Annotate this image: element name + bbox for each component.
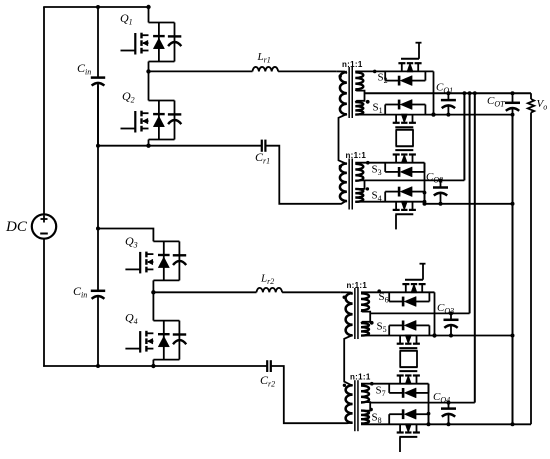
wire left rail (DC positive lead up): [43, 7, 45, 215]
wire load return: [530, 113, 532, 425]
label S4: [372, 190, 382, 204]
transistor S6 (SR MOSFET): [402, 280, 425, 293]
node T4 primary dot: [343, 384, 346, 387]
transistor S8 (SR MOSFET): [397, 424, 420, 437]
label DC: [5, 219, 28, 235]
node Q1-Q2 midpoint: [146, 69, 150, 73]
node Q1 drain: [146, 5, 150, 9]
transistor Q3 (MOSFET): [125, 252, 153, 274]
capacitor Cin (lower): [91, 291, 105, 366]
label Co1: [436, 82, 453, 96]
inductor Lr1: [253, 67, 279, 71]
wire bottom input rail: [43, 365, 267, 367]
wire S6 row: [361, 291, 435, 293]
node Co2 bottom: [439, 202, 443, 206]
node S4 winding dot: [366, 187, 369, 190]
capacitor Co2: [433, 180, 448, 203]
wire Q2 snubber box: [149, 101, 175, 140]
wire Q4 source vertical: [152, 360, 154, 366]
label Lr2: [260, 273, 274, 287]
secondary winding lower T2: [355, 189, 363, 202]
inductor Lr2: [257, 288, 283, 292]
label transformer ratio n:1:1 T1: [342, 60, 363, 69]
node center tap T1: [366, 100, 370, 104]
parallel capacitor of Q1: [168, 36, 181, 46]
node S7 winding dot: [370, 382, 374, 386]
transistor S4 (SR MOSFET): [393, 201, 416, 214]
capacitor Cin (upper): [91, 78, 105, 146]
gate lead S2: [416, 43, 422, 59]
node T2 primary dot: [339, 165, 342, 168]
wire mid rail to Cr1: [98, 145, 261, 147]
transformer core T4: [355, 380, 358, 431]
transistor S5 (SR MOSFET): [397, 335, 420, 348]
wire Q1 drain vertical: [148, 7, 150, 23]
label Q4: [125, 311, 138, 327]
wire Co2 top rail: [365, 179, 465, 181]
transformer T3 primary top lead: [340, 292, 352, 294]
label Cr2: [260, 373, 275, 389]
wire Q3 snubber box: [153, 241, 179, 280]
transistor S1 (SR MOSFET): [393, 114, 416, 127]
center tap connection T1: [355, 90, 364, 102]
label transformer ratio n:1:1 T4: [350, 373, 371, 382]
gate link box S1-S3: [396, 130, 414, 146]
node S2 joins S1 line: [431, 112, 435, 116]
svg-text:n:1:1: n:1:1: [350, 373, 371, 382]
transformer core T1: [349, 67, 352, 118]
transistor Q2 (MOSFET): [121, 111, 149, 133]
capacitor Co1: [441, 93, 456, 114]
wire Cin column middle: [97, 86, 99, 291]
primary winding T3: [346, 293, 353, 335]
node Co2 top: [439, 178, 443, 182]
DC source V1: [32, 214, 56, 238]
body diode of Q3: [158, 241, 170, 280]
capacitor CoT: [505, 93, 520, 114]
center tap connection T4: [361, 402, 370, 411]
node minus bus S1 line: [511, 113, 515, 117]
wire midpoint to Lr1: [149, 70, 253, 72]
wire Q4 drain vertical: [152, 292, 154, 320]
wire Q2 drain vertical: [148, 71, 150, 100]
label Lr1: [257, 51, 271, 65]
secondary winding lower T3: [361, 323, 369, 336]
label S5: [377, 321, 387, 335]
label Co3: [437, 302, 454, 316]
wire T3-T4 primary series link: [344, 335, 352, 386]
label Cr1: [255, 150, 270, 166]
diode of S5: [389, 320, 429, 335]
transformer T1 primary top lead: [336, 71, 347, 73]
node S2 winding dot: [373, 70, 377, 74]
node S6 joins S5 line: [432, 333, 436, 337]
secondary winding upper T2: [355, 164, 363, 181]
label S2: [378, 72, 388, 86]
capacitor Cr1: [262, 140, 266, 152]
node minus bus S5 line: [511, 334, 515, 338]
transformer core T3: [355, 288, 358, 339]
body diode of Q4: [158, 321, 170, 360]
diode of S6: [389, 292, 429, 306]
wire T4 primary bottom lead: [341, 422, 353, 425]
wire midpoint to Lr2: [153, 291, 256, 293]
label Q2: [122, 89, 135, 105]
wire Co4 top rail: [370, 402, 475, 404]
transistor S3 (SR MOSFET): [393, 150, 416, 163]
label S1: [373, 102, 383, 116]
wire Cr2 to transformer T4: [271, 366, 341, 423]
gate lead S6: [420, 264, 426, 280]
wire top rail to load: [530, 93, 532, 99]
node S8 winding dot: [370, 408, 373, 411]
wire S8 row / bottom output rail: [361, 423, 531, 425]
wire top output rail: [365, 92, 532, 94]
gate lead S8: [399, 437, 401, 452]
center tap connection T3: [361, 311, 370, 323]
wire left rail (DC negative lead down): [43, 239, 45, 367]
body diode of Q2: [153, 101, 165, 140]
wire Co3 top rail: [370, 312, 469, 314]
svg-text:n:1:1: n:1:1: [347, 281, 368, 290]
wire Q4 snubber box: [153, 321, 179, 360]
node minus bus S3S4 line: [511, 202, 515, 206]
label S3: [372, 164, 382, 178]
wire S3-S4 output vertical: [424, 163, 426, 204]
wire S1 row: [355, 114, 513, 116]
node S8 loop joins vertical: [427, 412, 431, 416]
diode of S3: [385, 163, 424, 177]
node Q3-Q4 midpoint: [151, 290, 155, 294]
wire S5 row: [361, 335, 513, 337]
wire Cr1 to transformer T2: [265, 146, 337, 204]
node Co4 bottom: [447, 422, 451, 426]
wire S2 output turn-down: [433, 71, 435, 114]
node Co3 bottom: [449, 334, 453, 338]
node S4 wire joins vertical: [423, 200, 427, 204]
label Co2: [426, 171, 443, 185]
wire Lr1 to transformer T1: [278, 70, 336, 72]
wire bus top-rail to Co2 rail: [463, 93, 465, 180]
diode of S7: [389, 384, 428, 398]
wire T1-T2 primary series link: [339, 114, 347, 164]
label Cin lower: [73, 284, 87, 300]
wire S6 output turn-down: [434, 292, 436, 335]
diode of S4: [385, 187, 424, 202]
transformer core T2: [349, 159, 352, 210]
wire S2 row: [355, 70, 433, 72]
label transformer ratio n:1:1 T3: [347, 281, 368, 290]
node Q2 source on mid rail: [146, 144, 150, 148]
parallel capacitor of Q3: [173, 255, 186, 265]
secondary winding lower T1: [355, 102, 363, 115]
primary winding T2: [340, 164, 347, 202]
node T3 primary dot: [343, 296, 346, 299]
capacitor Cr2: [267, 360, 271, 372]
node center tap T3: [370, 321, 374, 325]
svg-text:DC: DC: [5, 219, 28, 235]
wire T2 primary bottom lead: [337, 201, 347, 204]
wire Q3 source to midpoint: [152, 280, 154, 292]
secondary winding upper T3: [361, 293, 369, 310]
label Q1: [120, 11, 133, 27]
node S3 winding dot: [366, 161, 370, 165]
node S3S4 vertical on minus line: [423, 202, 427, 206]
wire minus bus vertical: [512, 115, 514, 425]
node S4 loop joins vertical: [423, 191, 427, 195]
node bus1 on top rail: [463, 91, 467, 95]
node Co1 bottom: [446, 113, 450, 117]
node bus3 on top rail: [473, 91, 477, 95]
capacitor Co4: [441, 403, 456, 425]
label S7: [376, 385, 386, 399]
capacitor Co3: [444, 313, 459, 335]
wire S3-S4 minus line: [425, 203, 514, 205]
wire bus top-rail to Co3 rail: [469, 93, 471, 313]
label transformer ratio n:1:1 T2: [346, 151, 367, 160]
diode of S2: [385, 71, 425, 85]
label S6: [379, 291, 389, 305]
node Cin midpoint: [96, 144, 100, 148]
node Co3 top: [449, 311, 453, 315]
body diode of Q1: [153, 23, 165, 62]
secondary winding upper T4: [361, 386, 369, 403]
wire Q2 source vertical: [148, 140, 150, 146]
wire top input rail: [43, 6, 149, 8]
label Vo: [537, 98, 548, 112]
label S8: [372, 412, 382, 426]
wire Q1 snubber box: [149, 23, 175, 62]
label CoT: [487, 95, 505, 109]
parallel capacitor of Q4: [173, 335, 186, 345]
wire Lr2 to transformer T3: [282, 291, 340, 293]
wire Cin column upper: [97, 7, 99, 78]
node CoT top: [511, 91, 515, 95]
diode of S1: [385, 100, 425, 115]
node minus bus bottom rail: [511, 422, 515, 426]
node Co4 top: [447, 401, 451, 405]
wire Q3 drain L from Cin tap: [98, 229, 153, 242]
transistor Q4 (MOSFET): [125, 331, 153, 353]
label Cin upper: [77, 61, 91, 77]
wire S7-S8 output vertical: [428, 384, 430, 425]
wire S7 row: [361, 383, 429, 385]
center tap connection T2: [355, 180, 364, 189]
parallel capacitor of Q2: [168, 114, 181, 124]
label Co4: [433, 391, 450, 405]
transistor S2 (SR MOSFET): [398, 59, 421, 72]
node Q3 drain tap: [96, 227, 100, 231]
gate link box S5-S7: [400, 351, 418, 367]
node bottom rail Cin junction: [96, 364, 100, 368]
node T1 primary dot: [339, 75, 342, 78]
secondary winding lower T4: [361, 411, 369, 424]
node bus2 on top rail: [468, 91, 472, 95]
wire bus top-rail to Co4 rail: [474, 93, 476, 402]
transistor S7 (SR MOSFET): [397, 371, 420, 384]
resistor load Vo: [528, 99, 534, 112]
label Q3: [125, 234, 138, 250]
node S7 vertical on bottom rail: [427, 422, 431, 426]
diode of S8: [389, 409, 428, 424]
node bottom rail Q4 source: [151, 364, 155, 368]
primary winding T1: [340, 72, 347, 114]
secondary winding upper T1: [355, 72, 363, 89]
node top-left junction Cin: [96, 5, 100, 9]
node S6 winding dot: [377, 289, 381, 293]
wire Q1 source to midpoint: [148, 62, 150, 72]
transistor Q1 (MOSFET): [121, 33, 149, 55]
node Co1 top: [446, 91, 450, 95]
primary winding T4: [346, 385, 353, 423]
wire S4 row: [355, 201, 424, 203]
gate lead S4: [395, 215, 397, 230]
wire S3 row: [355, 162, 424, 164]
